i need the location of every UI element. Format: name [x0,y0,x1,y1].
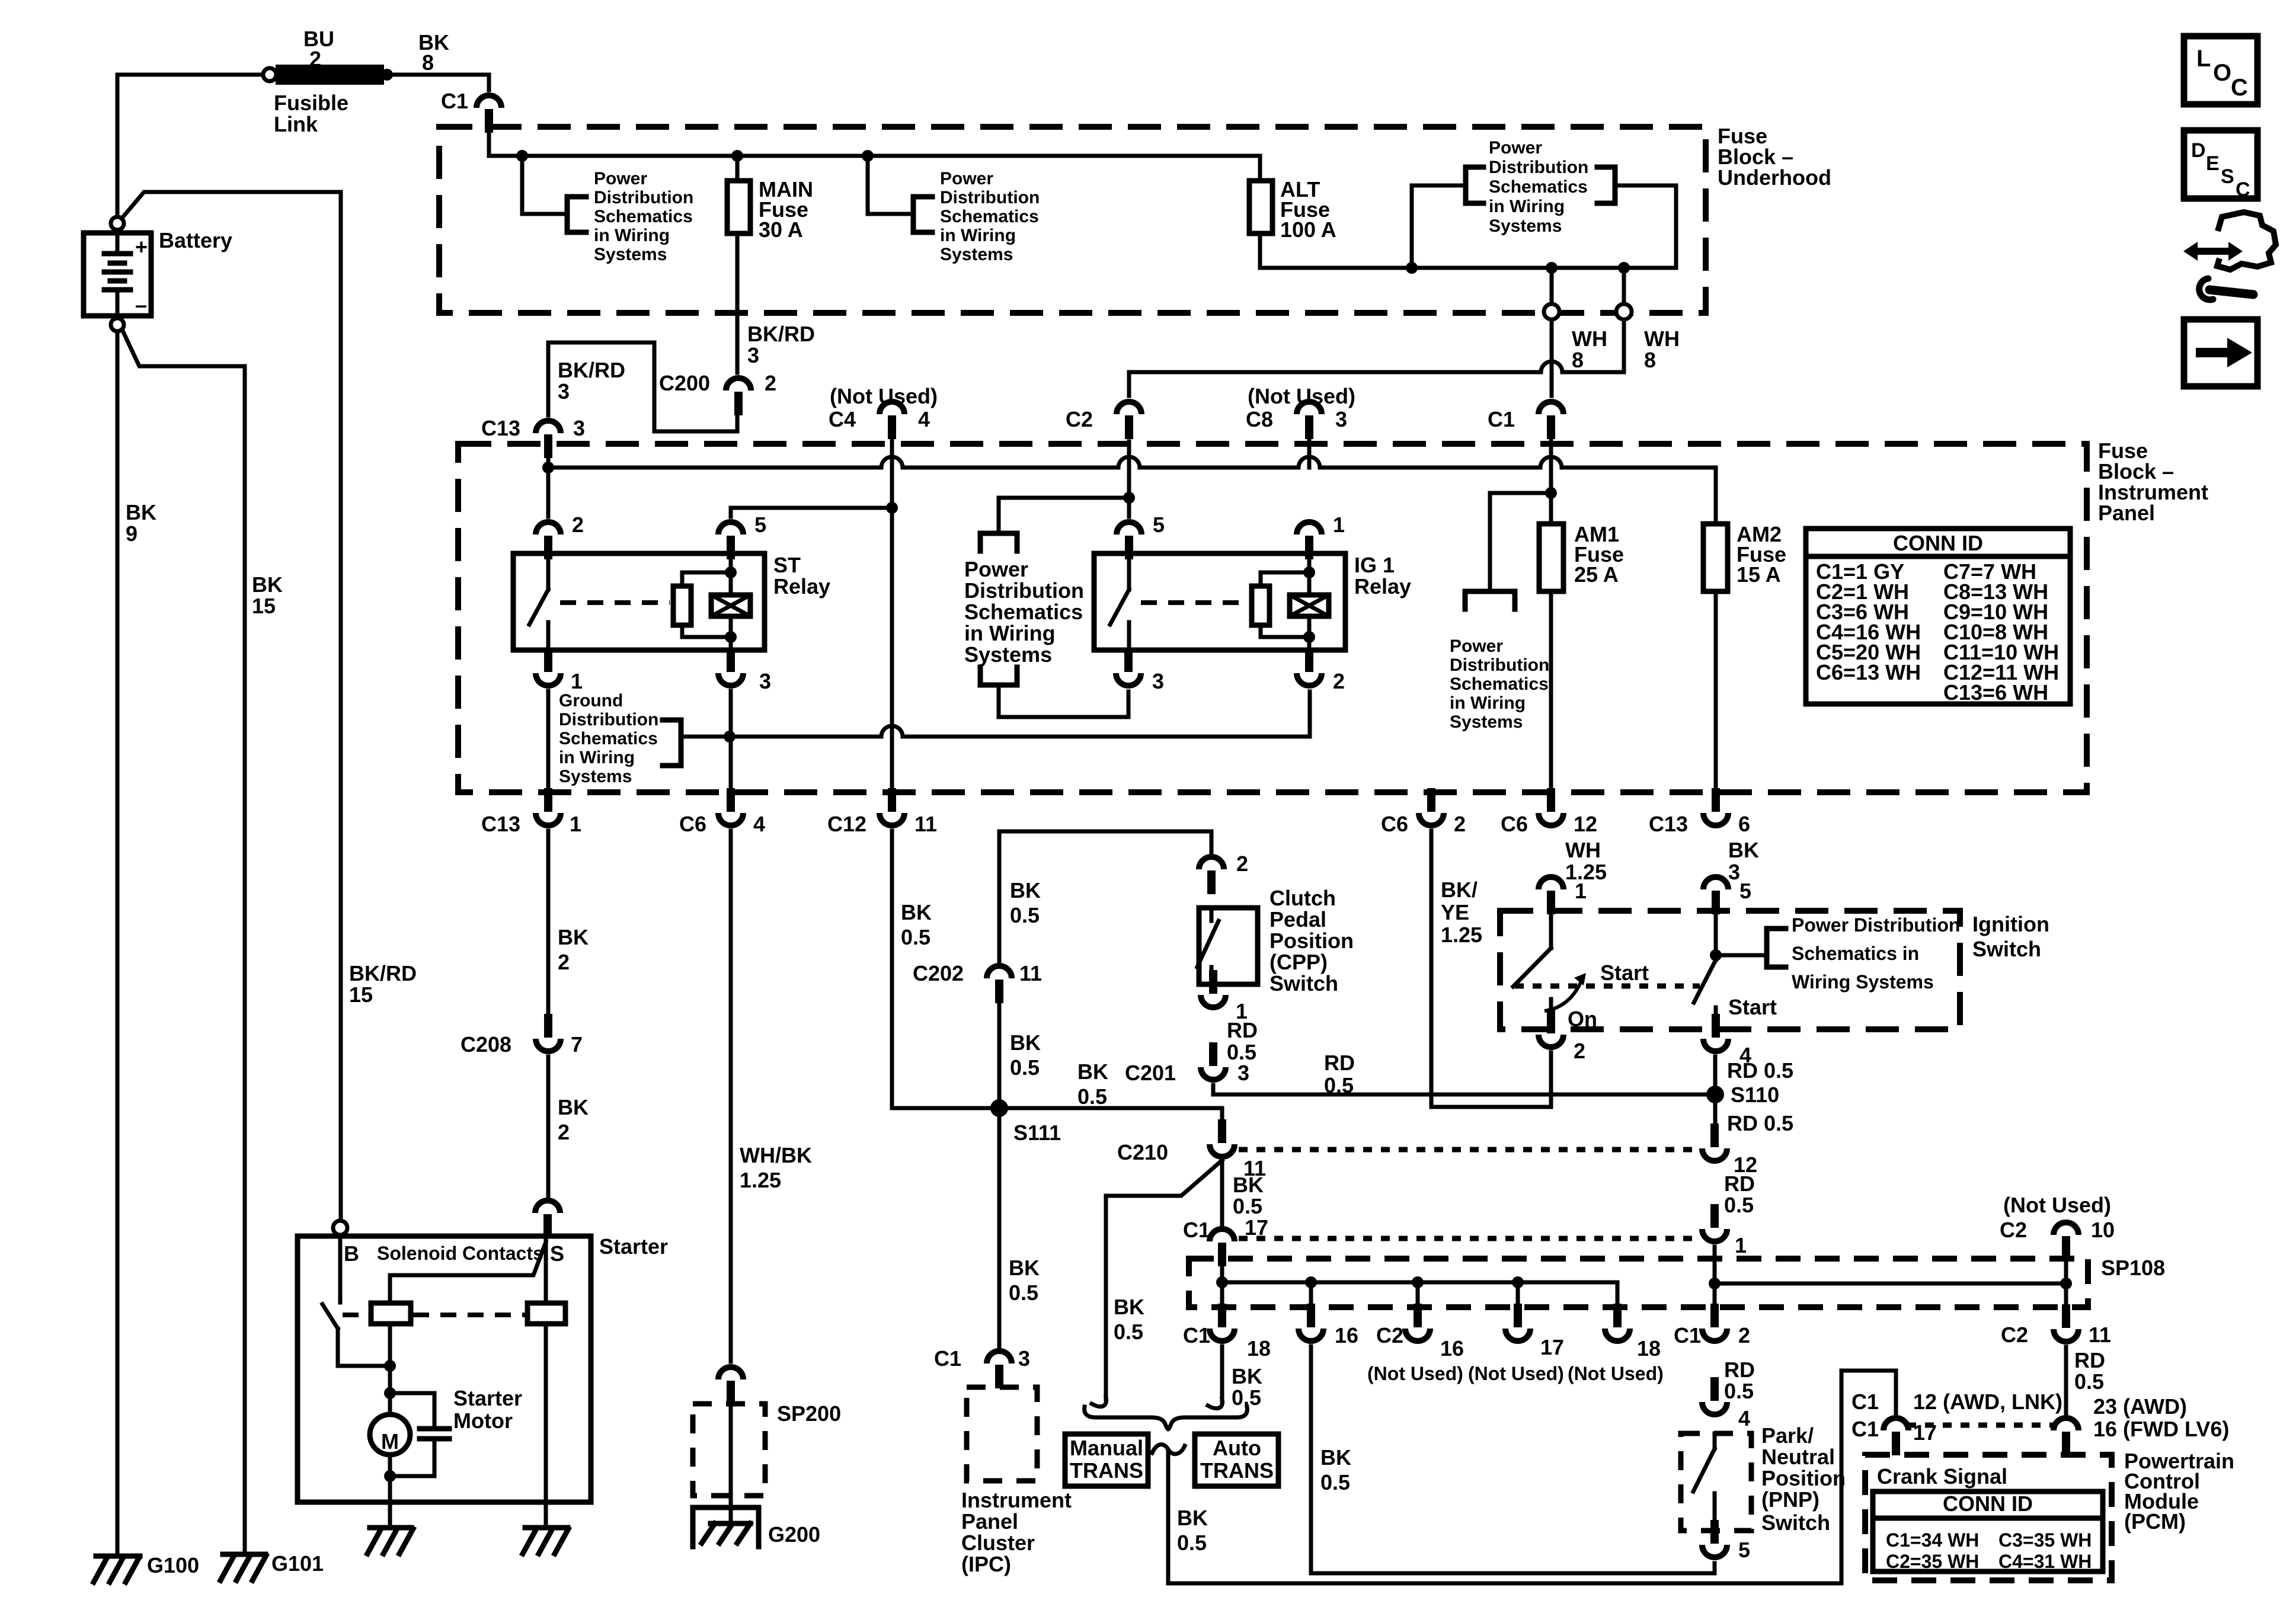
svg-text:B: B [344,1241,359,1266]
ST relay pin 5 connector [718,522,743,534]
connector C2 [1117,402,1141,414]
svg-text:C200: C200 [659,371,710,395]
svg-text:(IPC): (IPC) [961,1552,1011,1576]
fusible link BU 2 [277,66,382,83]
svg-text:C2: C2 [2001,1323,2028,1347]
svg-text:12 (AWD, LNK): 12 (AWD, LNK) [1913,1390,2062,1414]
starter box [298,1236,591,1502]
relay ST box [513,553,765,650]
svg-text:Power Distribution: Power Distribution [1792,914,1960,936]
svg-text:Power: Power [1489,138,1542,158]
svg-text:C201: C201 [1125,1061,1176,1085]
wire C13-3 to ST relay pin 2 [546,453,551,517]
svg-text:Switch: Switch [1972,937,2041,961]
svg-text:Schematics: Schematics [559,729,658,748]
svg-text:Crank Signal: Crank Signal [1877,1464,2007,1489]
wire C1-18 to auto trans [1220,1346,1224,1401]
middle note top bracket feed [999,498,1129,533]
svg-text:30 A: 30 A [759,217,803,242]
svg-text:YE: YE [1441,900,1469,924]
svg-text:C1: C1 [1851,1417,1879,1441]
svg-text:Start: Start [1728,995,1777,1019]
wire C8 column stub [1307,436,1312,468]
ground starter solenoid [525,1525,568,1531]
svg-text:BK: BK [1728,838,1759,862]
wire end hook manual [1092,1397,1107,1407]
svg-text:Wiring Systems: Wiring Systems [1792,971,1934,993]
svg-text:(Not Used): (Not Used) [2003,1193,2111,1217]
svg-text:8: 8 [1644,348,1656,372]
wire C201 to S110 [1213,1085,1715,1094]
svg-text:2: 2 [1738,1323,1750,1347]
connector row C1 dotted line [1239,1236,1692,1241]
svg-text:C1: C1 [934,1346,961,1371]
svg-text:3: 3 [759,669,771,693]
svg-text:BK: BK [126,500,156,524]
svg-text:1: 1 [1735,1233,1747,1257]
svg-text:G200: G200 [768,1522,820,1547]
svg-text:BK: BK [1177,1506,1208,1530]
svg-text:8: 8 [1572,348,1584,372]
svg-text:(Not Used): (Not Used) [1568,1363,1664,1384]
svg-text:4: 4 [753,812,765,836]
svg-text:C1: C1 [1488,407,1515,431]
svg-text:Distribution: Distribution [1450,655,1549,675]
svg-text:RD: RD [1724,1358,1755,1382]
svg-text:C6=13 WH: C6=13 WH [1816,660,1921,684]
solenoid left contact to motor [388,1324,392,1415]
wire branch to ST pin 5 [731,508,892,517]
ST relay coil crossed box [711,595,750,616]
starter motor to ground [388,1455,392,1528]
junction am1 note [1545,487,1557,499]
svg-text:WH: WH [1572,327,1607,351]
svg-text:BK: BK [901,900,932,924]
splice S110 [1706,1086,1724,1103]
table CONN ID instrument panel [1806,529,2070,704]
svg-text:On: On [1568,1007,1597,1031]
svg-text:Distribution: Distribution [964,578,1084,603]
underhood bus [489,154,1260,158]
svg-text:Schematics: Schematics [594,207,693,226]
wh note left bracket [1466,167,1483,203]
powertrain control module box [1865,1455,2112,1580]
wire fusible link to C1 [393,75,489,90]
svg-text:C: C [2231,75,2248,101]
svg-text:E: E [2206,152,2220,175]
SP108 bus right [1715,1282,2066,1286]
connector pin 16 [1299,1329,1323,1341]
svg-text:C2: C2 [2000,1218,2027,1242]
svg-text:17: 17 [1913,1420,1937,1445]
wire C4 column [890,436,894,794]
wire C202 to S111 [997,1004,1002,1103]
svg-text:0.5: 0.5 [1010,903,1040,927]
svg-text:Distribution: Distribution [1489,158,1588,177]
battery positive terminal [111,217,124,230]
wire C208 to starter S [546,1057,551,1196]
connector C1 fuse block underhood [477,95,501,108]
svg-text:in Wiring: in Wiring [1489,197,1565,216]
svg-text:Starter: Starter [453,1386,522,1410]
svg-text:C13: C13 [481,416,520,440]
starter B column [338,1235,343,1302]
IG1 relay pin 5 connector [1117,522,1141,534]
svg-text:2: 2 [572,513,584,537]
svg-text:in Wiring: in Wiring [559,748,635,767]
svg-text:RD: RD [1724,1172,1755,1196]
left power distribution bracket [567,197,586,232]
svg-text:C13: C13 [481,812,520,836]
connector C1 pin 1 right [1702,1229,1727,1241]
svg-text:2: 2 [1236,852,1248,876]
middle note bottom feed to IG1 pin 3 [999,685,1128,717]
svg-text:WH: WH [1644,327,1680,351]
IG1 relay pin 3 connector [1116,673,1141,686]
svg-text:16: 16 [1335,1323,1358,1347]
connector PNP pin 5 [1702,1545,1727,1557]
starter motor M [370,1414,410,1455]
am1 note feed [1490,493,1551,591]
svg-text:RD: RD [1227,1018,1258,1042]
svg-text:12: 12 [1574,812,1597,836]
svg-text:7: 7 [571,1032,583,1057]
svg-text:C202: C202 [913,961,964,985]
svg-text:8: 8 [422,50,434,75]
svg-text:BK: BK [1010,1030,1041,1055]
inline terminal left WH8 [1544,304,1559,319]
wire S111 to IPC C1-3 [997,1113,1002,1346]
svg-text:11: 11 [1019,961,1042,985]
svg-text:0.5: 0.5 [1724,1193,1754,1217]
svg-text:Systems: Systems [559,767,632,786]
svg-text:16: 16 [1440,1336,1464,1361]
IG1 relay pin 1 connector [1297,522,1322,534]
svg-text:+: + [135,235,148,259]
svg-text:9: 9 [126,521,137,546]
svg-text:C: C [2236,178,2250,201]
junction wh note left [1406,262,1418,274]
svg-text:Battery: Battery [159,228,232,252]
IG1 relay coil crossed box [1290,595,1329,616]
svg-text:Distribution: Distribution [594,188,693,207]
wire end hook auto [1208,1399,1223,1409]
svg-text:3: 3 [558,379,570,404]
brace manual/auto trans [1085,1407,1248,1429]
svg-text:Ignition: Ignition [1972,912,2049,936]
IG1 relay switch [1127,553,1131,590]
svg-text:1: 1 [1575,879,1587,903]
svg-text:0.5: 0.5 [2074,1369,2104,1394]
connector pin 17 [1505,1329,1530,1341]
IG1 relay pin 2 connector [1297,673,1322,686]
wire C1-17 into SP108 [1220,1266,1224,1310]
SP108 bus left [1222,1281,1617,1285]
svg-text:Power: Power [1450,636,1503,656]
ignition note bracket [1767,929,1786,967]
junction fusible link right [381,69,393,81]
connector PCM C2 crank [2054,1418,2078,1430]
ST relay switch [546,553,551,590]
svg-text:11: 11 [914,812,937,836]
wire C210-11 to C1-17 [1220,1162,1224,1224]
svg-text:G100: G100 [147,1553,199,1577]
svg-text:Position: Position [1761,1466,1846,1490]
svg-text:100 A: 100 A [1280,217,1336,242]
PNP switch blade [1713,1433,1717,1449]
fuse AM1 25A [1539,524,1563,591]
svg-text:1: 1 [570,812,581,836]
svg-text:(PCM): (PCM) [2124,1509,2186,1534]
underhood lower bus [1260,185,1676,268]
table CONN ID PCM [1873,1491,2103,1571]
am1 note bracket [1465,591,1515,609]
connector C13 pin 1 [536,813,561,825]
svg-text:in Wiring: in Wiring [964,621,1056,645]
svg-text:2: 2 [1574,1039,1585,1063]
connector C1 pin 17 [1210,1229,1235,1241]
ground starter motor [370,1525,411,1531]
svg-text:0.5: 0.5 [1010,1055,1040,1080]
ground G101 [223,1552,266,1557]
connector ignition pin 5 [1703,877,1728,889]
SP108 stub 18 [1616,1282,1620,1310]
wire auto trans option squiggle [1152,1445,1185,1454]
middle note top bracket [980,533,1017,551]
svg-text:11: 11 [2089,1323,2111,1347]
svg-text:SP200: SP200 [777,1401,841,1426]
svg-text:Instrument: Instrument [961,1488,1072,1512]
svg-text:S: S [550,1241,564,1266]
svg-text:Systems: Systems [594,245,667,264]
svg-text:Relay: Relay [1354,574,1411,598]
svg-text:3: 3 [1728,860,1740,884]
svg-text:S110: S110 [1731,1083,1779,1107]
wire WH 8 right [1622,268,1626,303]
svg-text:5: 5 [1739,879,1751,903]
svg-text:0.5: 0.5 [1233,1194,1262,1218]
svg-text:(Not Used): (Not Used) [1367,1363,1463,1384]
svg-text:WH: WH [1565,838,1601,862]
svg-text:2: 2 [558,1120,570,1144]
svg-text:0.5: 0.5 [1114,1320,1143,1344]
svg-text:Fusible: Fusible [274,91,348,115]
connector C1 pin 3 IPC [987,1351,1012,1363]
svg-text:C4=31 WH: C4=31 WH [1998,1551,2092,1572]
svg-text:Manual: Manual [1070,1436,1143,1460]
svg-text:Start: Start [1600,961,1649,985]
svg-text:WH/BK: WH/BK [740,1143,812,1167]
ignition note feed [1716,953,1767,958]
icon LOC box [2184,36,2257,104]
svg-text:C1: C1 [1183,1323,1210,1347]
fuse block instrument panel box [458,444,2087,792]
svg-text:0.5: 0.5 [1009,1281,1038,1305]
splice SP108 box [1189,1259,2088,1307]
junction WH8 left [1546,262,1558,274]
svg-text:BK/: BK/ [1441,878,1478,902]
svg-text:IG 1: IG 1 [1354,553,1395,577]
wire S110 to connector 12 [1713,1103,1718,1129]
svg-text:O: O [2213,60,2231,86]
connector C8 (not used) [1297,402,1322,414]
connector C1 pin 2 [1702,1329,1727,1341]
svg-text:(Not Used): (Not Used) [1248,384,1355,408]
ignition start arrow [1544,981,1581,1011]
svg-text:S: S [2221,165,2234,188]
connector PCM C1 crank [1884,1418,1908,1430]
connector PNP pin 4 [1702,1402,1727,1414]
relay IG 1 box [1094,553,1345,650]
svg-text:BK: BK [558,925,589,949]
IG1 relay coil [1307,553,1312,595]
svg-text:16 (FWD LV6): 16 (FWD LV6) [2093,1417,2229,1441]
svg-text:Solenoid Contacts: Solenoid Contacts [377,1243,543,1264]
splice S111 [990,1099,1008,1117]
svg-text:23 (AWD): 23 (AWD) [2093,1394,2187,1419]
connector C13 pin 3 [536,421,561,433]
junction ST pin3 ground [724,731,736,742]
svg-text:RD: RD [1324,1051,1355,1075]
svg-text:18: 18 [1637,1336,1661,1361]
icon DESC box [2184,130,2257,199]
connector pin 18 [1605,1329,1630,1341]
fuse MAIN 30A [736,156,740,181]
battery [84,233,151,316]
connector ignition pin 1 [1539,877,1563,889]
wire auto trans to PCM crank [1168,1371,1896,1583]
svg-text:15: 15 [349,982,373,1007]
svg-text:C1: C1 [1851,1390,1879,1414]
wire C2 to IG1 pin 5 [1127,441,1131,517]
svg-text:1.25: 1.25 [1441,923,1482,947]
wh note left feed [1412,185,1466,268]
svg-text:(Not Used): (Not Used) [830,384,938,408]
svg-text:BK: BK [558,1095,589,1119]
connector C4 (not used) [880,402,904,414]
connector ignition pin 2 output [1539,1035,1563,1047]
fusible link terminal circle [263,68,276,81]
splice SP200 box [693,1404,765,1496]
svg-text:3: 3 [1237,1061,1249,1085]
svg-text:Switch: Switch [1761,1510,1830,1535]
svg-text:SP108: SP108 [2101,1256,2165,1280]
svg-text:3: 3 [1335,407,1347,431]
svg-text:C1: C1 [1183,1218,1210,1242]
junction left note [516,150,528,162]
solenoid right contact [527,1303,565,1324]
svg-text:5: 5 [1153,513,1165,537]
left power distribution note feed [522,156,567,214]
svg-text:CONN ID: CONN ID [1943,1491,2033,1516]
svg-text:0.5: 0.5 [1324,1073,1354,1097]
svg-text:CONN ID: CONN ID [1893,531,1983,555]
starter B terminal circle [333,1221,347,1235]
instrument panel cluster box [967,1387,1037,1481]
svg-text:BK: BK [1232,1364,1262,1388]
connector starter S terminal [535,1201,560,1213]
svg-text:Systems: Systems [1489,216,1562,236]
svg-text:in Wiring: in Wiring [940,226,1016,245]
svg-text:1.25: 1.25 [740,1168,781,1192]
connector CPP pin 1 [1201,995,1226,1007]
svg-text:(Not Used): (Not Used) [1468,1363,1564,1384]
svg-text:0.5: 0.5 [1724,1379,1754,1403]
svg-text:BK: BK [252,572,283,597]
connector C200 pin 2 [726,378,751,391]
ignition switch box [1500,911,1960,1029]
svg-text:S111: S111 [1013,1121,1061,1145]
svg-text:C210: C210 [1117,1140,1168,1164]
svg-text:3: 3 [573,416,585,440]
svg-text:18: 18 [1247,1336,1271,1361]
connector CPP pin 2 [1199,857,1224,869]
svg-text:Neutral: Neutral [1761,1445,1835,1469]
svg-text:Auto: Auto [1213,1436,1261,1460]
svg-text:BK/RD: BK/RD [747,322,815,346]
ignition internal dotted [1515,984,1700,989]
connector C210 pin 11 right [1702,1148,1727,1161]
svg-text:C6: C6 [1381,812,1408,836]
svg-text:C208: C208 [461,1032,511,1057]
svg-text:10: 10 [2091,1218,2115,1242]
svg-text:C6: C6 [1501,812,1528,836]
svg-text:Clutch: Clutch [1269,886,1336,910]
right power distribution bracket [913,197,932,232]
svg-text:Systems: Systems [964,642,1052,667]
svg-text:in Wiring: in Wiring [594,226,670,245]
battery negative terminal [111,318,124,331]
starter S column [544,1236,548,1303]
junction bus C13-3 [542,462,554,473]
junction MAIN fuse [731,150,743,162]
svg-text:1: 1 [571,669,583,693]
ST relay pin 3 connector [718,673,743,686]
svg-text:BK: BK [1009,1256,1040,1280]
ground distribution wire [681,726,1310,737]
svg-text:Relay: Relay [773,574,830,598]
svg-text:2: 2 [1454,812,1466,836]
svg-text:C4: C4 [829,407,856,431]
svg-text:4: 4 [918,407,930,431]
wire battery positive tap to starter B cable [121,192,341,1223]
svg-text:ST: ST [773,553,801,577]
junction ig1 note [1123,492,1135,504]
svg-text:Motor: Motor [453,1409,513,1433]
svg-text:C2: C2 [1066,407,1093,431]
svg-text:TRANS: TRANS [1070,1458,1143,1483]
connector C201 pin 3 [1201,1067,1226,1080]
svg-text:Distribution: Distribution [940,188,1040,207]
junction ST pin5 branch [886,502,898,514]
wire battery negative to G101 [122,329,245,1553]
connector row C210 dotted line [1239,1147,1694,1153]
SP108 stub 17 [1516,1282,1520,1310]
solenoid actuator dash [343,1313,369,1317]
svg-text:2: 2 [765,371,776,395]
svg-text:Panel: Panel [2098,501,2155,525]
svg-text:0.5: 0.5 [901,925,930,949]
svg-text:BK: BK [1233,1173,1264,1197]
instrument panel bus [548,457,1716,468]
svg-text:in Wiring: in Wiring [1450,693,1526,713]
svg-text:15: 15 [252,594,276,618]
ground distribution bracket [663,720,681,766]
connector C2 pin 16 [1405,1329,1430,1341]
svg-text:1: 1 [1333,513,1345,537]
wire C2-10 through SP108 [2064,1242,2068,1310]
fuse block underhood box [439,127,1706,313]
